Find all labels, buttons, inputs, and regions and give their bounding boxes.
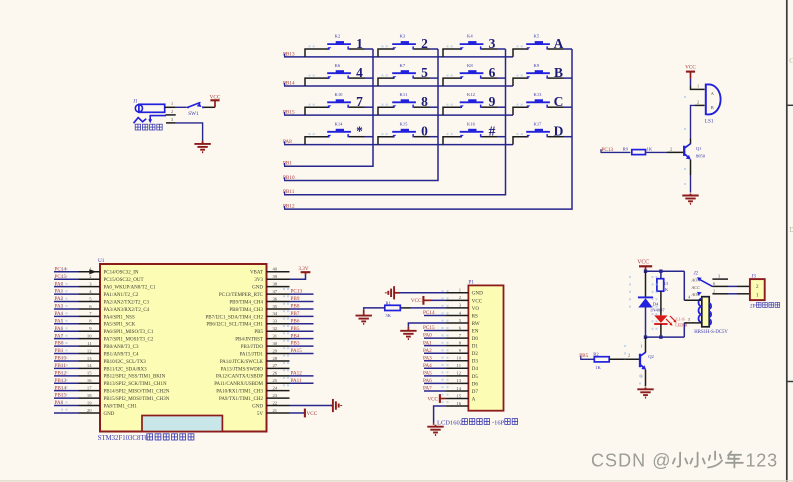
connector J1 (power jack) [133, 98, 166, 123]
svg-text:PA4/SPI1_NSS: PA4/SPI1_NSS [104, 315, 135, 320]
svg-text:RW: RW [472, 321, 480, 327]
svg-text:D2: D2 [472, 351, 479, 357]
U1 pin 37 (PC13/TEMPER_RTC) wire / net PC13 [219, 289, 314, 298]
svg-text:PA0_WKUP/AN8/T2_C1: PA0_WKUP/AN8/T2_C1 [104, 286, 157, 291]
svg-text:PA1/AN1/T2_C2: PA1/AN1/T2_C2 [104, 293, 139, 298]
svg-text:PC14: PC14 [55, 266, 67, 272]
wire SW1 to VCC [204, 106, 215, 108]
pushbutton K4 [443, 34, 506, 57]
svg-text:PA13/JTMS/SWDIO: PA13/JTMS/SWDIO [221, 367, 264, 372]
svg-text:PB0/AN8/T3_C3: PB0/AN8/T3_C3 [104, 345, 140, 350]
wire P1 pin16 to ground [434, 406, 446, 423]
svg-text:PB8: PB8 [291, 304, 300, 310]
svg-text:PA12: PA12 [291, 370, 303, 376]
svg-text:K11: K11 [400, 92, 408, 97]
svg-text:6: 6 [713, 281, 715, 286]
wire PB14 row bus [284, 83, 513, 86]
switch SW1 [187, 102, 204, 117]
svg-text:GND: GND [252, 404, 263, 409]
U1 pin 26 (PA12/CANTX/USBDP) wire / net PA12 [216, 370, 314, 379]
svg-text:5V: 5V [257, 412, 264, 417]
resistor R3 [657, 271, 664, 315]
U1 pin 2 (PC15/OSC32_OUT) wire / net PC15 [54, 274, 144, 283]
wire P1 pin1 to ground [400, 292, 446, 294]
svg-text:12: 12 [456, 371, 461, 376]
svg-text:D5: D5 [472, 374, 479, 380]
J2 pin 6 wire to J3 pin 2 [712, 281, 750, 287]
wire PC13 to R9 [601, 149, 631, 152]
svg-text:5: 5 [688, 317, 690, 322]
svg-text:RS: RS [472, 313, 478, 319]
pushbutton K13 [513, 92, 572, 115]
power 3.3V [298, 266, 310, 275]
svg-text:2P: 2P [750, 304, 756, 310]
svg-text:8050: 8050 [696, 153, 706, 158]
svg-text:PA12/CANTX/USBDP: PA12/CANTX/USBDP [216, 375, 263, 380]
svg-text:-16P: -16P [492, 420, 505, 427]
svg-text:EN: EN [472, 328, 479, 334]
svg-text:PB4: PB4 [291, 333, 300, 339]
P1 pin 5 (RW) wire [445, 318, 479, 327]
svg-text:5K: 5K [386, 313, 392, 318]
watermark CSDN @小小少年123 [591, 451, 778, 471]
svg-text:PB3: PB3 [291, 341, 300, 347]
svg-text:D7: D7 [472, 389, 479, 395]
svg-text:123: 123 [746, 451, 778, 471]
P1 pin 12 (D5) wire / net PA5 [423, 370, 478, 379]
svg-text:3V3: 3V3 [254, 278, 263, 283]
svg-text:PB5: PB5 [254, 330, 263, 335]
wire PB1 column bus [284, 49, 373, 166]
svg-text:PB6/I2C1_SCL/TIM4_CH1: PB6/I2C1_SCL/TIM4_CH1 [206, 323, 263, 328]
U1 pin 1 (PC14/OSC32_IN) wire / net PC14 [54, 266, 139, 275]
ground (P1 pin16) [427, 423, 443, 435]
pushbutton K14 [305, 121, 373, 144]
wire R1 to ground [364, 308, 385, 310]
svg-text:6: 6 [489, 65, 496, 80]
svg-text:PA9/TX1/TIM1_CH2: PA9/TX1/TIM1_CH2 [219, 397, 263, 402]
J1 pin 3 stub [166, 117, 176, 123]
svg-text:1K: 1K [663, 287, 669, 292]
svg-text:37: 37 [273, 289, 278, 294]
connector J3 (2P terminal) [750, 274, 765, 300]
svg-text:40: 40 [273, 267, 278, 272]
svg-text:4: 4 [356, 65, 363, 80]
junction (bottom node / collector) [644, 335, 647, 338]
U1 pin 31 (PB4/JNTRST) wire / net PB4 [235, 333, 313, 342]
wire relay pin5 down to bottom node [683, 323, 685, 337]
wire PA8 row bus [284, 141, 513, 144]
wire PB12 column bus [284, 49, 572, 209]
svg-text:1K: 1K [647, 147, 653, 152]
svg-text:29: 29 [273, 348, 278, 353]
J1 pin 2 stub [166, 109, 176, 115]
wire top node down to relay pin4 [683, 271, 685, 300]
svg-text:5: 5 [421, 65, 428, 80]
svg-text:PB12/SPI2_NSS/TIM1_BKIN: PB12/SPI2_NSS/TIM1_BKIN [104, 375, 166, 380]
wire J1 pin3 to ground [176, 123, 203, 141]
wire pin21 5V to VCC [290, 412, 305, 414]
svg-text:*: * [356, 124, 363, 139]
svg-text:PA4: PA4 [423, 363, 432, 369]
svg-text:LCD1602: LCD1602 [437, 420, 463, 427]
svg-text:PB13: PB13 [55, 378, 67, 384]
ground (P1 pin5) [400, 327, 416, 340]
U1 pin 33 (PB6/I2C1_SCL/TIM4_CH1) wire / net PB6 [206, 318, 313, 327]
svg-text:34: 34 [273, 311, 278, 316]
svg-text:10: 10 [87, 333, 92, 338]
P1 pin 10 (D3) wire / net PA3 [423, 355, 478, 364]
svg-text:32: 32 [273, 326, 278, 331]
svg-text:2: 2 [171, 109, 173, 114]
pushbutton K17 [513, 121, 572, 144]
wire 3V3 to 3.3V power [290, 275, 306, 279]
svg-text:PA10/RX1/TIM1_CH3: PA10/RX1/TIM1_CH3 [216, 390, 263, 395]
J2 pin 2 wire to J3 pin 1 [712, 288, 750, 294]
svg-text:VCC: VCC [210, 95, 221, 101]
svg-text:K14: K14 [335, 121, 344, 126]
svg-text:PA3: PA3 [423, 355, 432, 361]
svg-text:PA3/AN3/RX2/T2_C4: PA3/AN3/RX2/T2_C4 [104, 308, 150, 313]
svg-text:PB12: PB12 [55, 370, 67, 376]
wire P1 pin15 to VCC [440, 398, 445, 400]
svg-text:19: 19 [87, 400, 92, 405]
svg-text:10: 10 [456, 356, 461, 361]
svg-text:17: 17 [87, 385, 92, 390]
svg-text:22: 22 [273, 400, 278, 405]
pushbutton K2 [305, 34, 373, 57]
svg-text:VCC: VCC [472, 298, 483, 304]
U1 pin 6 (PA3/AN3/RX2/T2_C4) wire / net PA3 [54, 304, 150, 313]
pushbutton K8 [443, 63, 506, 86]
svg-text:K3: K3 [400, 34, 406, 39]
power VCC (P1 pin2) [411, 296, 423, 305]
wire PB15 row bus [284, 112, 513, 115]
diode D4 (1N4007) [638, 271, 653, 337]
U1 pin 30 (PB3/JTDO) wire / net PB3 [241, 341, 314, 350]
svg-text:PA5/SPI1_SCK: PA5/SPI1_SCK [104, 323, 136, 328]
svg-text:K10: K10 [335, 92, 344, 97]
MCU module U1 [98, 258, 267, 431]
U1 pin 40 (VBAT) wire [250, 267, 290, 276]
svg-text:D: D [554, 124, 564, 139]
svg-text:PB15: PB15 [55, 393, 67, 399]
U1 pin 7 (PA4/SPI1_NSS) wire / net PA4 [54, 311, 135, 320]
svg-text:PA1: PA1 [423, 340, 432, 346]
svg-text:VCC: VCC [427, 396, 438, 402]
junction (R3 top) [659, 270, 662, 273]
power VCC (P1 pin15) [427, 394, 440, 403]
svg-text:CSDN @: CSDN @ [591, 451, 672, 471]
svg-text:35: 35 [273, 304, 278, 309]
svg-text:36: 36 [273, 296, 278, 301]
svg-text:J1: J1 [133, 98, 138, 104]
P1 pin 6 (EN) wire / net PC15 [423, 325, 479, 334]
svg-text:PA2: PA2 [423, 348, 432, 354]
svg-text:PB9/TIM4_CH4: PB9/TIM4_CH4 [229, 300, 263, 305]
wire VCC to LS1 pin1 [691, 79, 705, 90]
svg-text:PB7: PB7 [291, 311, 300, 317]
pushbutton K5 [513, 34, 572, 57]
svg-text:PC14: PC14 [423, 310, 435, 316]
svg-text:PA15: PA15 [291, 348, 303, 354]
svg-text:U1: U1 [98, 258, 105, 264]
svg-text:31: 31 [273, 333, 278, 338]
svg-text:GND: GND [472, 291, 483, 297]
svg-text:VCC: VCC [307, 411, 318, 417]
svg-text:11: 11 [457, 363, 462, 368]
U1 pin 36 (PB9/TIM4_CH4) wire / net PB9 [229, 296, 313, 305]
pushbutton K10 [305, 92, 373, 115]
svg-text:27: 27 [273, 363, 278, 368]
P1 pin 4 (RS) wire / net PC14 [423, 310, 478, 319]
svg-text:D0: D0 [472, 336, 479, 342]
wire PB11 column bus [284, 49, 506, 195]
svg-text:2: 2 [421, 36, 428, 51]
svg-text:PB11/I2C_SDA/RX3: PB11/I2C_SDA/RX3 [104, 367, 148, 372]
U1 pin 22 (GND) wire [252, 400, 289, 409]
svg-text:PB14/SPI2_MISO/TIM1_CH2N: PB14/SPI2_MISO/TIM1_CH2N [104, 390, 170, 395]
svg-text:R2: R2 [593, 351, 599, 356]
svg-text:R3: R3 [663, 281, 669, 286]
pushbutton K12 [443, 92, 506, 115]
U1 pin 29 (PA15/JTD1) wire / net PA15 [240, 348, 314, 357]
svg-text:20: 20 [87, 408, 92, 413]
svg-text:K8: K8 [467, 63, 473, 68]
svg-text:1: 1 [171, 101, 173, 106]
svg-text:J3: J3 [752, 274, 757, 279]
svg-text:PB11: PB11 [55, 363, 67, 369]
wire P1 pin2 to VCC [431, 299, 445, 301]
wire pin22 GND to ground [290, 405, 332, 407]
U1 pin 35 (PB8/TIM4_CH3) wire / net PB8 [229, 304, 313, 313]
U1 pin 23 (PA9/TX1/TIM1_CH2) wire [219, 393, 290, 402]
P1 pin 8 (D1) wire / net PA1 [423, 340, 478, 349]
svg-text:HRS1H-S-DC5V: HRS1H-S-DC5V [694, 330, 728, 335]
svg-text:VCC: VCC [411, 298, 422, 304]
svg-text:D6: D6 [472, 381, 479, 387]
power VCC (buzzer) [685, 65, 696, 79]
U1 pin 39 (3V3) wire [254, 274, 289, 283]
svg-text:R9: R9 [623, 147, 629, 152]
svg-text:PC15/OSC32_OUT: PC15/OSC32_OUT [104, 278, 144, 283]
svg-text:K15: K15 [400, 121, 409, 126]
svg-text:1: 1 [640, 344, 642, 349]
U1 pin 32 (PB5) wire / net PB5 [254, 326, 313, 335]
wire Q2 emitter to ground [645, 370, 647, 387]
svg-text:SW1: SW1 [188, 111, 199, 117]
svg-text:2: 2 [713, 288, 715, 293]
svg-text:15: 15 [456, 393, 461, 398]
svg-text:D: D [789, 226, 793, 234]
svg-text:PB10/I2C_SCL/TX3: PB10/I2C_SCL/TX3 [104, 360, 147, 365]
U1 pin 12 (PB1/AN9/T3_C4) wire / net PB1 [54, 348, 139, 357]
ground (J1 section) [194, 141, 210, 153]
svg-text:9: 9 [489, 94, 496, 109]
svg-text:39: 39 [273, 274, 278, 279]
U1 pin 34 (PB7/I2C1_SDA/TIM4_CH2) wire / net PB7 [205, 311, 313, 320]
wire R9 to Q1 base [646, 151, 684, 153]
svg-text:PA15/JTD1: PA15/JTD1 [240, 352, 264, 357]
svg-text:2: 2 [670, 147, 672, 152]
svg-text:PB10: PB10 [55, 356, 67, 362]
wire LS1 pin2 to Q1 collector [691, 105, 705, 143]
svg-text:PC13: PC13 [291, 289, 303, 295]
power VCC (U1 pin 21, sideways) [305, 409, 318, 418]
svg-text:VO: VO [472, 306, 480, 312]
svg-text:PB1/AN9/T3_C4: PB1/AN9/T3_C4 [104, 352, 140, 357]
U1 pin 17 (PB14/SPI2_MISO/TIM1_CH2N) wire / net PB14 [54, 385, 170, 394]
svg-text:R1: R1 [386, 300, 392, 305]
wire P1 pin5 to ground [408, 323, 445, 327]
svg-text:PB5: PB5 [291, 326, 300, 332]
ground (Q2 emitter) [637, 387, 653, 397]
svg-text:PA5: PA5 [423, 370, 432, 376]
U1 pin 18 (PB15/SPI2_MOSI/TIM1_CH3N) wire / net PB15 [54, 393, 170, 402]
svg-text:GND: GND [104, 412, 115, 417]
svg-text:Q2: Q2 [648, 354, 654, 359]
label 电源接口 [135, 124, 162, 130]
svg-text:PB3/JTDO: PB3/JTDO [241, 345, 264, 350]
svg-text:K7: K7 [400, 63, 406, 68]
svg-text:0: 0 [421, 124, 428, 139]
P1 pin 9 (D2) wire / net PA2 [423, 348, 478, 357]
svg-text:K6: K6 [335, 63, 341, 68]
wire bottom node to Q2 collector [645, 337, 647, 353]
svg-text:PB14: PB14 [55, 385, 67, 391]
svg-text:28: 28 [273, 356, 278, 361]
ground (R1) [356, 310, 372, 324]
U1 pin 25 (PA11/CANRX/USBDM) wire / net PA11 [214, 378, 313, 387]
label LCD1602液晶显示-16P排座 [437, 419, 518, 427]
svg-text:STM32F103C8T6: STM32F103C8T6 [98, 435, 149, 442]
svg-text:14: 14 [456, 386, 461, 391]
svg-text:D4: D4 [472, 366, 479, 372]
svg-text:PA0: PA0 [423, 333, 432, 339]
svg-text:K13: K13 [534, 92, 543, 97]
svg-text:38: 38 [273, 281, 278, 286]
transistor Q2 [640, 352, 655, 369]
relay K1 coil (HRS1H-S-DC5V) [684, 294, 711, 326]
svg-text:16: 16 [87, 378, 92, 383]
svg-text:VBAT: VBAT [250, 271, 263, 276]
svg-text:L1-S: L1-S [676, 316, 685, 321]
svg-text:D3: D3 [472, 359, 479, 365]
label STM32F103C8T6最小系统模块 [98, 434, 194, 442]
svg-text:2: 2 [628, 352, 630, 357]
P1 pin 13 (D6) wire / net PA6 [423, 378, 478, 387]
power VCC (J1 section) [210, 95, 221, 108]
resistor R9 [632, 150, 646, 155]
svg-text:21: 21 [273, 408, 278, 413]
svg-text:C: C [789, 57, 793, 65]
svg-text:K16: K16 [467, 121, 476, 126]
J2 pin 3 wire (NO, open) [712, 274, 728, 280]
svg-text:PC15: PC15 [423, 325, 435, 331]
relay contacts J2 [691, 272, 713, 298]
U1 pin 11 (PB0/AN8/T3_C3) wire / net PB0 [54, 341, 139, 350]
svg-text:A: A [472, 396, 476, 402]
U1 pin 28 (PA14/JTCK/SWCLK) wire [220, 356, 290, 365]
U1 pin 21 (5V) wire [257, 408, 290, 417]
connector P1 (LCD1602 header) [468, 280, 503, 411]
svg-text:1: 1 [356, 36, 363, 51]
resistor R1 [385, 305, 401, 310]
pushbutton K16 [443, 121, 506, 144]
svg-text:B: B [554, 65, 563, 80]
svg-text:GND: GND [252, 286, 263, 291]
svg-text:18: 18 [87, 393, 92, 398]
pushbutton K15 [378, 121, 438, 144]
svg-text:33: 33 [273, 319, 278, 324]
svg-text:26: 26 [273, 371, 278, 376]
P1 pin 14 (D7) wire / net PA7 [423, 386, 478, 395]
svg-text:2: 2 [697, 99, 699, 104]
svg-text:B: B [711, 105, 714, 110]
svg-text:30: 30 [273, 341, 278, 346]
svg-text:PA11: PA11 [291, 378, 303, 384]
J1 pin 1 stub [165, 101, 176, 107]
ground (U1 pin 22, sideways) [331, 399, 341, 412]
svg-text:PB15/SPI2_MOSI/TIM1_CH3N: PB15/SPI2_MOSI/TIM1_CH3N [104, 397, 170, 402]
svg-text:PC15: PC15 [55, 274, 67, 280]
P1 pin 11 (D4) wire / net PA4 [423, 363, 478, 372]
pushbutton K6 [305, 63, 373, 86]
svg-text:K9: K9 [534, 63, 540, 68]
svg-text:1K: 1K [595, 365, 601, 370]
svg-text:D1: D1 [472, 344, 479, 350]
pushbutton K7 [378, 63, 438, 86]
transistor Q1 [684, 144, 705, 160]
svg-text:PA2/AN2/TX2/T2_C3: PA2/AN2/TX2/T2_C3 [104, 300, 150, 305]
svg-text:3: 3 [171, 117, 173, 122]
svg-text:14: 14 [87, 363, 92, 368]
svg-text:PA14/JTCK/SWCLK: PA14/JTCK/SWCLK [220, 360, 264, 365]
wire PB5 to R2 [580, 356, 594, 359]
U1 pin 5 (PA2/AN2/TX2/T2_C3) wire / net PA2 [54, 296, 149, 305]
wire R2 to Q2 base [609, 358, 640, 360]
junction (VCC tee) [644, 270, 647, 273]
P1 pin 15 (A) wire [445, 393, 475, 402]
svg-text:PB9: PB9 [291, 296, 300, 302]
U1 pin 24 (PA10/RX1/TIM1_CH3) wire [216, 385, 289, 394]
pushbutton K3 [378, 34, 438, 57]
svg-text:PB13/SPI2_SCK/TIM1_CH1N: PB13/SPI2_SCK/TIM1_CH1N [104, 382, 167, 387]
U1 pin 27 (PA13/JTMS/SWDIO) wire [221, 363, 290, 372]
svg-text:3.3V: 3.3V [298, 266, 308, 272]
svg-text:PB4/JNTRST: PB4/JNTRST [235, 338, 263, 343]
svg-text:13: 13 [456, 378, 461, 383]
wire PB10 column bus [284, 49, 438, 181]
P1 pin 16 (NC) wire [445, 401, 468, 406]
wire bottom node [646, 336, 685, 338]
U1 pin 10 (PA7/SPI1_MOSI/T3_C2) wire / net PA7 [54, 333, 154, 342]
wire R1 to P1 pin3 [400, 307, 445, 309]
svg-text:PC14/OSC32_IN: PC14/OSC32_IN [104, 271, 139, 276]
svg-text:3: 3 [718, 274, 720, 279]
pushbutton K11 [378, 92, 438, 115]
label 2P蓝色端子 [750, 303, 780, 310]
svg-text:15: 15 [87, 371, 92, 376]
svg-text:PA8/TIM1_CH1: PA8/TIM1_CH1 [104, 404, 138, 409]
svg-text:12: 12 [87, 348, 92, 353]
svg-text:PB7/I2C1_SDA/TIM4_CH2: PB7/I2C1_SDA/TIM4_CH2 [205, 315, 263, 320]
U1 pin 14 (PB11/I2C_SDA/RX3) wire / net PB11 [54, 363, 147, 372]
svg-text:24: 24 [273, 385, 278, 390]
svg-text:25: 25 [273, 378, 278, 383]
wire Q1 emitter to ground [690, 160, 692, 193]
P1 pin 1 (GND) wire [445, 288, 483, 297]
